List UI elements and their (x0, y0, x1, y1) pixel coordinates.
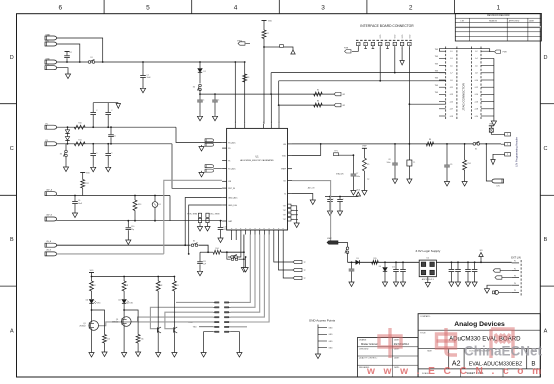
svg-text:P4: P4 (514, 283, 516, 285)
svg-text:P0: P0 (228, 148, 230, 150)
svg-text:C: C (343, 199, 345, 201)
svg-text:GND: GND (329, 341, 334, 343)
svg-text:LIN_A: LIN_A (46, 240, 52, 243)
svg-text:ADC_IN: ADC_IN (308, 186, 315, 189)
svg-text:VBAT: VBAT (46, 33, 52, 36)
svg-text:SIZE: SIZE (427, 351, 432, 353)
svg-text:CHECKED:: CHECKED: (359, 349, 369, 351)
svg-text:D: D (544, 55, 548, 61)
svg-text:2N7002: 2N7002 (79, 326, 85, 328)
svg-text:ADP3330-3.3: ADP3330-3.3 (422, 278, 435, 281)
svg-text:P1: P1 (228, 161, 230, 163)
svg-text:QUALITY CONTROL:: QUALITY CONTROL: (359, 357, 378, 360)
svg-text:GND: GND (46, 58, 51, 60)
svg-text:J-19: J-19 (450, 116, 454, 118)
svg-text:0R: 0R (343, 94, 346, 96)
svg-text:R8: R8 (429, 139, 431, 141)
svg-text:XO: XO (283, 181, 286, 183)
svg-text:VBAT: VBAT (489, 122, 493, 125)
svg-text:CAP: CAP (228, 220, 233, 223)
svg-text:10k: 10k (141, 339, 144, 341)
svg-text:P: P (236, 228, 238, 229)
svg-text:EXT LIN: EXT LIN (511, 257, 521, 260)
svg-text:1uF: 1uF (203, 264, 206, 266)
svg-text:C13: C13 (224, 227, 227, 229)
svg-text:S5: S5 (193, 241, 195, 243)
svg-text:C8: C8 (388, 159, 390, 161)
svg-text:J-16: J-16 (474, 101, 478, 103)
svg-text:R13: R13 (138, 204, 141, 206)
svg-text:R11: R11 (78, 139, 81, 141)
svg-text:P: P (507, 144, 508, 146)
svg-text:TST: TST (283, 219, 287, 221)
svg-text:P: P (255, 228, 257, 229)
svg-text:GND_DIG: GND_DIG (228, 205, 237, 207)
svg-text:C1: C1 (147, 75, 149, 77)
svg-text:D3: D3 (356, 258, 358, 260)
svg-text:LIN: LIN (228, 181, 232, 183)
svg-text:15p: 15p (131, 229, 134, 231)
svg-text:VDD: VDD (409, 34, 411, 38)
svg-text:Y1: Y1 (413, 162, 415, 164)
svg-text:VDD: VDD (86, 173, 90, 175)
svg-text:J-20: J-20 (474, 116, 478, 118)
svg-text:C: C (96, 153, 98, 155)
svg-text:J-5: J-5 (450, 65, 453, 67)
svg-text:ADUCM330_48LFCSP CALIBRATED: ADUCM330_48LFCSP CALIBRATED (240, 159, 274, 162)
svg-text:R: R (177, 285, 179, 287)
svg-text:C: C (10, 146, 14, 152)
svg-text:XTAL32K: XTAL32K (336, 173, 344, 176)
svg-text:J-4: J-4 (475, 58, 478, 60)
svg-text:J-2: J-2 (475, 51, 478, 53)
svg-text:VDD: VDD (357, 190, 361, 192)
svg-text:GND: GND (329, 334, 334, 336)
svg-text:red: red (118, 299, 121, 302)
svg-text:VDD: VDD (380, 34, 382, 38)
svg-text:C: C (111, 153, 113, 155)
svg-text:C: C (218, 100, 220, 102)
svg-text:VBAT: VBAT (327, 237, 332, 240)
svg-text:TP: TP (304, 262, 307, 264)
svg-text:VDD: VDD (402, 34, 404, 38)
svg-text:LIN: LIN (497, 186, 501, 188)
svg-text:P: P (278, 228, 280, 229)
svg-text:D: D (10, 55, 14, 61)
svg-text:S3: S3 (60, 154, 62, 156)
svg-text:P6: P6 (46, 140, 48, 142)
svg-text:3V3: 3V3 (479, 250, 482, 252)
svg-text:K1: K1 (159, 204, 161, 206)
svg-text:R14: R14 (215, 248, 218, 250)
svg-text:R2: R2 (267, 33, 269, 35)
svg-text:2N7002: 2N7002 (112, 322, 118, 324)
svg-text:P: P (274, 228, 276, 229)
svg-text:VDD: VDD (268, 21, 273, 23)
svg-text:GND: GND (329, 348, 334, 350)
svg-text:ChinaECNet: ChinaECNet (464, 344, 543, 359)
svg-text:REASON: REASON (489, 20, 498, 23)
svg-text:P1: P1 (514, 261, 516, 263)
svg-text:P5: P5 (514, 290, 516, 292)
svg-text:R15: R15 (373, 258, 376, 260)
svg-text:w w w . E C C N . c o m: w w w . E C C N . c o m (366, 366, 544, 377)
svg-text:P: P (269, 228, 271, 229)
svg-text:S2: S2 (475, 149, 477, 151)
svg-text:B: B (10, 237, 14, 243)
svg-text:C: C (111, 110, 113, 112)
svg-text:J-11: J-11 (450, 87, 453, 89)
svg-text:C5: C5 (114, 135, 116, 137)
svg-text:TMS: TMS (435, 92, 438, 94)
svg-text:Mislav Grkovic: Mislav Grkovic (361, 342, 379, 346)
svg-text:J-9: J-9 (450, 80, 453, 82)
svg-text:TST: TST (283, 215, 287, 217)
svg-text:5: 5 (146, 5, 150, 12)
svg-text:D2: D2 (70, 52, 72, 54)
svg-text:GND Access Points: GND Access Points (309, 319, 336, 323)
svg-text:S1: S1 (90, 57, 92, 59)
svg-text:C6: C6 (78, 200, 80, 202)
svg-text:4: 4 (234, 5, 238, 12)
svg-text:C: C (544, 146, 548, 152)
svg-text:10k: 10k (107, 339, 110, 341)
svg-text:LIN Programming Header: LIN Programming Header (515, 137, 519, 167)
svg-text:R9: R9 (367, 164, 369, 166)
svg-text:P: P (283, 228, 285, 229)
svg-text:INTERFACE BOARD CONNECTOR: INTERFACE BOARD CONNECTOR (360, 24, 414, 28)
svg-text:P: P (507, 134, 508, 136)
svg-text:J-17: J-17 (450, 109, 454, 111)
svg-text:R6: R6 (317, 101, 319, 103)
svg-text:1: 1 (496, 5, 500, 12)
svg-text:RV1: RV1 (468, 163, 471, 165)
svg-text:470p: 470p (224, 229, 228, 231)
svg-text:P: P (250, 228, 252, 229)
svg-text:J-10: J-10 (474, 80, 478, 82)
svg-text:R12: R12 (86, 183, 89, 185)
svg-text:JTAG CONNECTOR: JTAG CONNECTOR (461, 82, 465, 110)
svg-text:TMS: TMS (435, 63, 438, 65)
svg-text:TP: TP (367, 179, 370, 181)
svg-text:100n: 100n (387, 162, 391, 164)
svg-text:RST_IN: RST_IN (228, 188, 235, 190)
svg-text:DATE: DATE (529, 20, 535, 23)
svg-text:PWR: PWR (503, 52, 508, 54)
svg-text:B: B (544, 237, 548, 243)
svg-text:J-3: J-3 (450, 58, 453, 60)
svg-text:GND: GND (329, 328, 334, 330)
svg-text:P: P (231, 228, 233, 229)
svg-text:R: R (127, 285, 129, 287)
svg-text:CAP_A: CAP_A (46, 188, 53, 191)
svg-text:TMS: TMS (435, 78, 438, 80)
svg-text:XI: XI (284, 193, 286, 195)
svg-text:J-7: J-7 (450, 73, 453, 75)
svg-text:C11: C11 (203, 261, 206, 263)
svg-text:P: P (264, 228, 266, 229)
svg-text:TITLE:: TITLE: (420, 332, 426, 334)
svg-text:3.3V Logic Supply: 3.3V Logic Supply (415, 249, 440, 253)
svg-text:GND_ADC: GND_ADC (228, 196, 238, 199)
svg-text:VDD: VDD (395, 34, 397, 38)
svg-text:R10: R10 (78, 123, 81, 125)
svg-text:J-15: J-15 (450, 101, 454, 103)
svg-text:R: R (94, 285, 96, 287)
svg-text:DRAWN:: DRAWN: (359, 338, 367, 341)
svg-text:TMS: TMS (435, 56, 438, 58)
svg-text:DS1: DS1 (130, 303, 134, 305)
svg-text:C12: C12 (392, 267, 395, 269)
svg-text:VREG: VREG (237, 41, 243, 43)
svg-text:TMS: TMS (435, 49, 438, 51)
svg-text:R: R (161, 285, 163, 287)
svg-text:D1: D1 (204, 71, 206, 73)
svg-text:P2: P2 (514, 268, 516, 270)
svg-text:J-13: J-13 (450, 94, 454, 96)
svg-text:TP: TP (304, 278, 307, 280)
svg-text:CAP_B: CAP_B (46, 214, 53, 217)
svg-text:DATE:: DATE: (394, 357, 400, 360)
svg-text:2: 2 (409, 5, 413, 12)
svg-text:P5: P5 (46, 123, 48, 125)
svg-text:red: red (86, 299, 89, 302)
svg-text:A: A (10, 329, 14, 335)
svg-text:J-1: J-1 (450, 51, 453, 53)
svg-text:TST: TST (283, 206, 287, 208)
svg-text:P2_ADC: P2_ADC (228, 167, 236, 170)
svg-text:C: C (333, 199, 335, 201)
svg-text:P: P (507, 154, 508, 156)
svg-text:PWR: PWR (344, 48, 349, 50)
svg-text:C: C (96, 110, 98, 112)
svg-text:Analog Devices: Analog Devices (454, 321, 505, 328)
svg-text:P0_ADC: P0_ADC (228, 141, 236, 144)
svg-text:C7: C7 (356, 173, 358, 175)
svg-text:A: A (544, 329, 548, 335)
svg-text:U1: U1 (256, 156, 260, 159)
svg-text:VREF: VREF (281, 169, 287, 171)
svg-text:COMPANY:: COMPANY: (420, 315, 431, 318)
svg-text:Q1: Q1 (83, 323, 85, 325)
svg-text:TP1: TP1 (334, 151, 337, 153)
svg-text:VDD: VDD (282, 155, 287, 157)
svg-text:TST: TST (283, 210, 287, 212)
svg-text:U2: U2 (427, 258, 430, 260)
svg-text:DATE:: DATE: (394, 338, 400, 341)
svg-text:C9: C9 (450, 164, 452, 166)
svg-text:OSC_TRIM: OSC_TRIM (210, 214, 220, 216)
svg-text:LIN_B: LIN_B (46, 250, 52, 252)
svg-text:VDD: VDD (90, 270, 94, 272)
svg-text:VREF: VREF (362, 146, 367, 148)
svg-text:P: P (241, 228, 243, 229)
svg-text:P: P (245, 228, 247, 229)
svg-text:J-12: J-12 (474, 87, 478, 89)
svg-text:J-18: J-18 (474, 109, 478, 111)
svg-text:6: 6 (58, 5, 62, 12)
svg-text:10uF: 10uF (147, 77, 152, 79)
svg-text:P3: P3 (514, 275, 516, 277)
svg-text:10uF: 10uF (78, 203, 83, 205)
svg-text:100n: 100n (356, 176, 360, 178)
svg-text:D4: D4 (379, 266, 381, 268)
svg-text:TX0: TX0 (193, 327, 198, 329)
svg-text:Q1: Q1 (116, 319, 118, 321)
svg-text:C10: C10 (131, 226, 134, 228)
svg-text:S4: S4 (193, 87, 195, 89)
svg-text:POR_TRIM: POR_TRIM (187, 214, 197, 216)
svg-text:REVISION RECORD: REVISION RECORD (487, 14, 510, 17)
svg-text:0R: 0R (343, 105, 346, 107)
svg-text:TMS: TMS (435, 85, 438, 87)
svg-text:LIN: LIN (283, 144, 287, 146)
svg-text:J-6: J-6 (475, 65, 478, 67)
svg-text:APPROVED: APPROVED (509, 20, 520, 23)
svg-text:J-14: J-14 (474, 94, 478, 96)
svg-text:LTR: LTR (461, 21, 465, 23)
svg-text:R3: R3 (247, 77, 249, 79)
svg-text:3: 3 (321, 5, 325, 12)
svg-text:DS1: DS1 (97, 303, 101, 305)
svg-text:P: P (260, 228, 262, 229)
svg-text:R5: R5 (317, 90, 319, 92)
svg-text:C: C (203, 100, 205, 102)
svg-text:TP: TP (304, 270, 307, 272)
svg-text:J-8: J-8 (475, 73, 478, 75)
svg-text:TMS: TMS (435, 71, 438, 73)
